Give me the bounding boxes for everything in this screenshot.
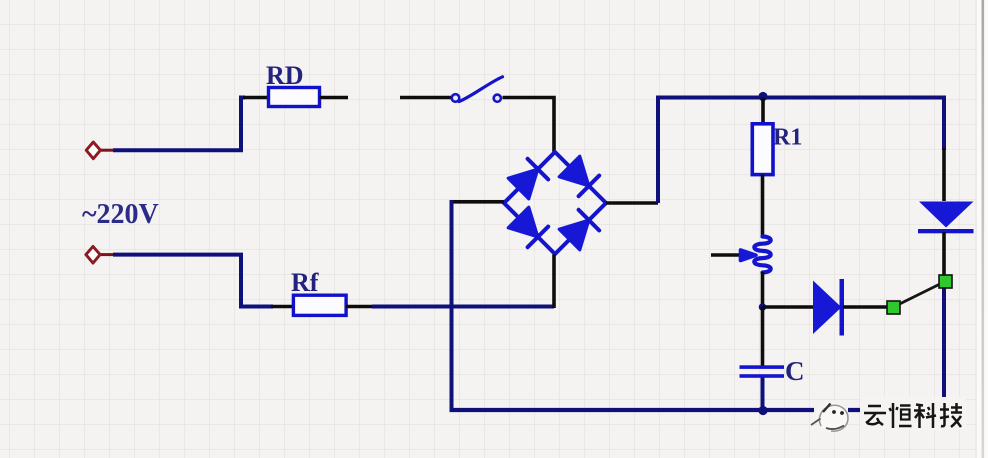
bridge diode D2 (top-right) triangle xyxy=(559,156,589,186)
wire: SCR cathode pin (black) xyxy=(942,232,946,276)
wire: switch to bridge top (black) xyxy=(503,98,555,155)
wire: diode cathode to handle (black) xyxy=(843,305,888,309)
watermark char ji xyxy=(940,403,962,427)
selection handle 1 (green) xyxy=(887,301,900,314)
bridge diode D4 (bottom-right) triangle xyxy=(559,220,589,250)
wire: right vertical to bottom rail xyxy=(942,287,946,402)
wire: Rf left pin (black) xyxy=(271,305,294,309)
wire: bridge right pin (black) xyxy=(606,201,658,205)
selection handle 2 (green) xyxy=(939,275,952,288)
right edge line xyxy=(975,0,977,458)
capacitor C bottom plate xyxy=(740,374,785,378)
wire: switch left pin (black) xyxy=(400,96,452,100)
capacitor C top plate xyxy=(740,365,785,369)
terminal P2 stub xyxy=(100,253,114,256)
wire: gate diagonal (selected) xyxy=(899,284,942,305)
node junction top (R1 tap) xyxy=(758,92,767,101)
wire: pot bottom pin (black) xyxy=(761,272,765,307)
node junction bottom xyxy=(758,406,767,415)
wire: terminal1 to RD corner xyxy=(113,98,245,151)
bridge diode D4 bar xyxy=(579,210,600,231)
diode D triangle xyxy=(813,281,842,335)
thyristor SCR triangle xyxy=(919,202,974,228)
wire: terminal2 to Rf corner xyxy=(113,255,273,307)
svg-text:~220V: ~220V xyxy=(82,199,159,230)
wire: capacitor to bottom rail xyxy=(761,378,765,411)
switch right contact circle xyxy=(494,95,501,102)
watermark char heng xyxy=(890,403,912,428)
wire: junction to diode anode (black) xyxy=(763,305,814,309)
wire: right corner up and top rail xyxy=(658,98,944,204)
wire: junction down to capacitor (black) xyxy=(761,307,765,366)
wire: RD right pin (black) xyxy=(320,96,349,100)
wire: bridge bottom pin (black) xyxy=(552,255,556,309)
thyristor SCR cathode bar xyxy=(918,229,974,233)
bridge diode D3 (bottom-left) triangle xyxy=(508,207,538,237)
watermark logo stroke1 xyxy=(823,404,831,413)
bridge diode D1 (top-left) triangle xyxy=(508,169,538,199)
bridge diode D3 bar xyxy=(528,227,549,248)
wire: bottom rail right piece xyxy=(848,408,866,412)
watermark logo stroke2 xyxy=(811,419,821,426)
svg-text:Rf: Rf xyxy=(291,268,319,297)
wire: R1 bottom pin to pot (black) xyxy=(761,175,765,239)
right edge panel xyxy=(975,0,988,458)
svg-text:R1: R1 xyxy=(773,125,802,151)
switch left contact circle xyxy=(452,94,460,102)
bridge diode D2 bar xyxy=(579,176,600,197)
watermark logo eye2 xyxy=(840,411,844,415)
svg-text:C: C xyxy=(785,356,805,386)
potentiometer wiper arrowhead xyxy=(741,250,757,261)
resistor Rf xyxy=(293,295,346,315)
watermark char ke xyxy=(914,403,936,428)
potentiometer RP coil xyxy=(754,237,770,273)
watermark char yun xyxy=(864,406,886,425)
watermark logo eye1 xyxy=(832,410,836,414)
resistor RD xyxy=(269,88,320,107)
bridge diode D1 bar xyxy=(528,159,549,180)
terminal P1 stub xyxy=(100,149,114,152)
terminal P1 diamond xyxy=(86,142,100,159)
wire: bottom rail xyxy=(450,408,815,412)
watermark logo circle xyxy=(819,405,848,431)
terminal P2 diamond xyxy=(86,246,100,263)
watermark text halo xyxy=(860,397,966,430)
right edge scrollbar shadow xyxy=(982,0,985,458)
resistor R1 xyxy=(752,124,773,175)
wire: SCR anode pin (black) xyxy=(942,148,946,201)
bridge diamond outline xyxy=(504,152,606,254)
watermark logo mouth xyxy=(826,426,844,430)
wire: Rf to bridge bottom xyxy=(372,305,554,309)
diode D cathode bar xyxy=(840,279,845,336)
switch S blade xyxy=(459,77,503,102)
wire: Rf right pin (black) xyxy=(346,305,372,309)
wire: left vertical down to bottom rail xyxy=(450,200,454,410)
potentiometer wiper line (black) xyxy=(711,253,742,257)
svg-text:RD: RD xyxy=(266,61,304,90)
wire: bridge left pin (black) xyxy=(452,200,504,204)
wire: R1 top pin (black) xyxy=(761,98,765,125)
node junction mid xyxy=(759,303,767,311)
watermark logo halo xyxy=(816,401,848,433)
wire: RD left pin (black) xyxy=(243,96,269,100)
